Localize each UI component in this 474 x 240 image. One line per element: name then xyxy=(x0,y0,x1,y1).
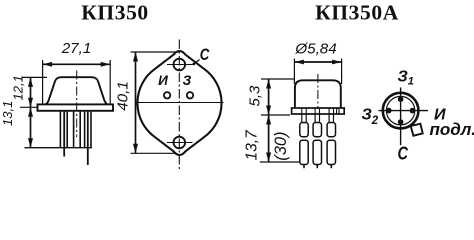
transistor can dome (КП350 side view) xyxy=(46,77,108,104)
svg-text:5,3: 5,3 xyxy=(247,85,264,107)
tick at flange level xyxy=(20,106,37,108)
tick at dome top level xyxy=(22,76,47,78)
diamond case outline xyxy=(137,51,221,155)
center axis dash-dot (КП350) xyxy=(76,71,78,138)
outer case circle xyxy=(383,93,419,129)
extension lines for Ø5,84 xyxy=(293,59,295,85)
svg-text:КП350А: КП350А xyxy=(315,1,399,25)
vertical axis dash-dot of diamond xyxy=(178,40,180,172)
tick at flange seat level xyxy=(261,114,290,116)
small can (КП350А) xyxy=(295,80,341,108)
svg-text:С: С xyxy=(398,143,409,164)
svg-text:КП350: КП350 xyxy=(81,1,149,25)
key tab xyxy=(411,124,423,136)
dimension 40,1 line xyxy=(133,52,138,153)
svg-text:(30): (30) xyxy=(272,131,290,160)
pin dot left З2 xyxy=(386,108,392,114)
left chained dimension 5,3 / 13,7(30) xyxy=(266,79,271,162)
pin 3 (КП350А) xyxy=(327,114,335,168)
glass bushing 1 below flange xyxy=(59,112,61,148)
svg-text:подл.: подл. xyxy=(430,120,474,139)
svg-text:40,1: 40,1 xyxy=(115,81,132,111)
left chained dimension line 12,1 / 13,1 xyxy=(28,77,33,147)
cross horizontal line xyxy=(379,110,429,112)
flange (mounting plate) xyxy=(38,104,114,110)
pin dot right И xyxy=(410,108,416,114)
pin ticks through flange gap xyxy=(302,108,339,114)
inner circle xyxy=(386,96,414,124)
leader line for С xyxy=(194,60,200,65)
svg-text:Ø5,84: Ø5,84 xyxy=(294,40,336,57)
mounting hole bottom xyxy=(174,137,186,149)
tick at can top level xyxy=(261,78,295,80)
pin hole З xyxy=(187,92,193,98)
lead through bushing 1 xyxy=(63,112,65,157)
mounting hole top xyxy=(174,59,186,71)
svg-text:13,1: 13,1 xyxy=(0,101,15,126)
svg-text:13,7: 13,7 xyxy=(244,129,261,161)
glass bushing 3 xyxy=(84,112,86,148)
glass bushing 2 (center) xyxy=(73,112,75,148)
pin hole И xyxy=(164,92,170,98)
svg-text:З: З xyxy=(183,73,192,88)
cross vertical line xyxy=(400,88,402,146)
tick at diamond bottom tip xyxy=(131,152,175,154)
center axis dash-dot КП350А xyxy=(317,74,319,108)
pin 1 (КП350А) xyxy=(300,114,308,168)
tick at diamond top tip xyxy=(131,51,180,53)
lead through bushing 3 xyxy=(87,112,89,165)
pin dot bottom С xyxy=(398,119,404,125)
svg-text:27,1: 27,1 xyxy=(61,40,92,57)
flange КП350А xyxy=(292,108,345,114)
extension line left xyxy=(42,60,44,105)
svg-text:И: И xyxy=(158,73,168,88)
extension line right xyxy=(109,60,111,105)
pin 2 (КП350А) xyxy=(313,114,321,168)
tick at pin end level xyxy=(260,161,301,163)
bushings bottom line extended left (13,1 tick) xyxy=(25,147,93,149)
dimension 27,1 line xyxy=(43,62,111,67)
pin dot top З1 xyxy=(398,96,404,102)
svg-text:12,1: 12,1 xyxy=(11,75,26,100)
horizontal axis of diamond xyxy=(135,102,224,104)
svg-text:С: С xyxy=(200,46,210,65)
dimension Ø5,84 line xyxy=(294,60,341,65)
